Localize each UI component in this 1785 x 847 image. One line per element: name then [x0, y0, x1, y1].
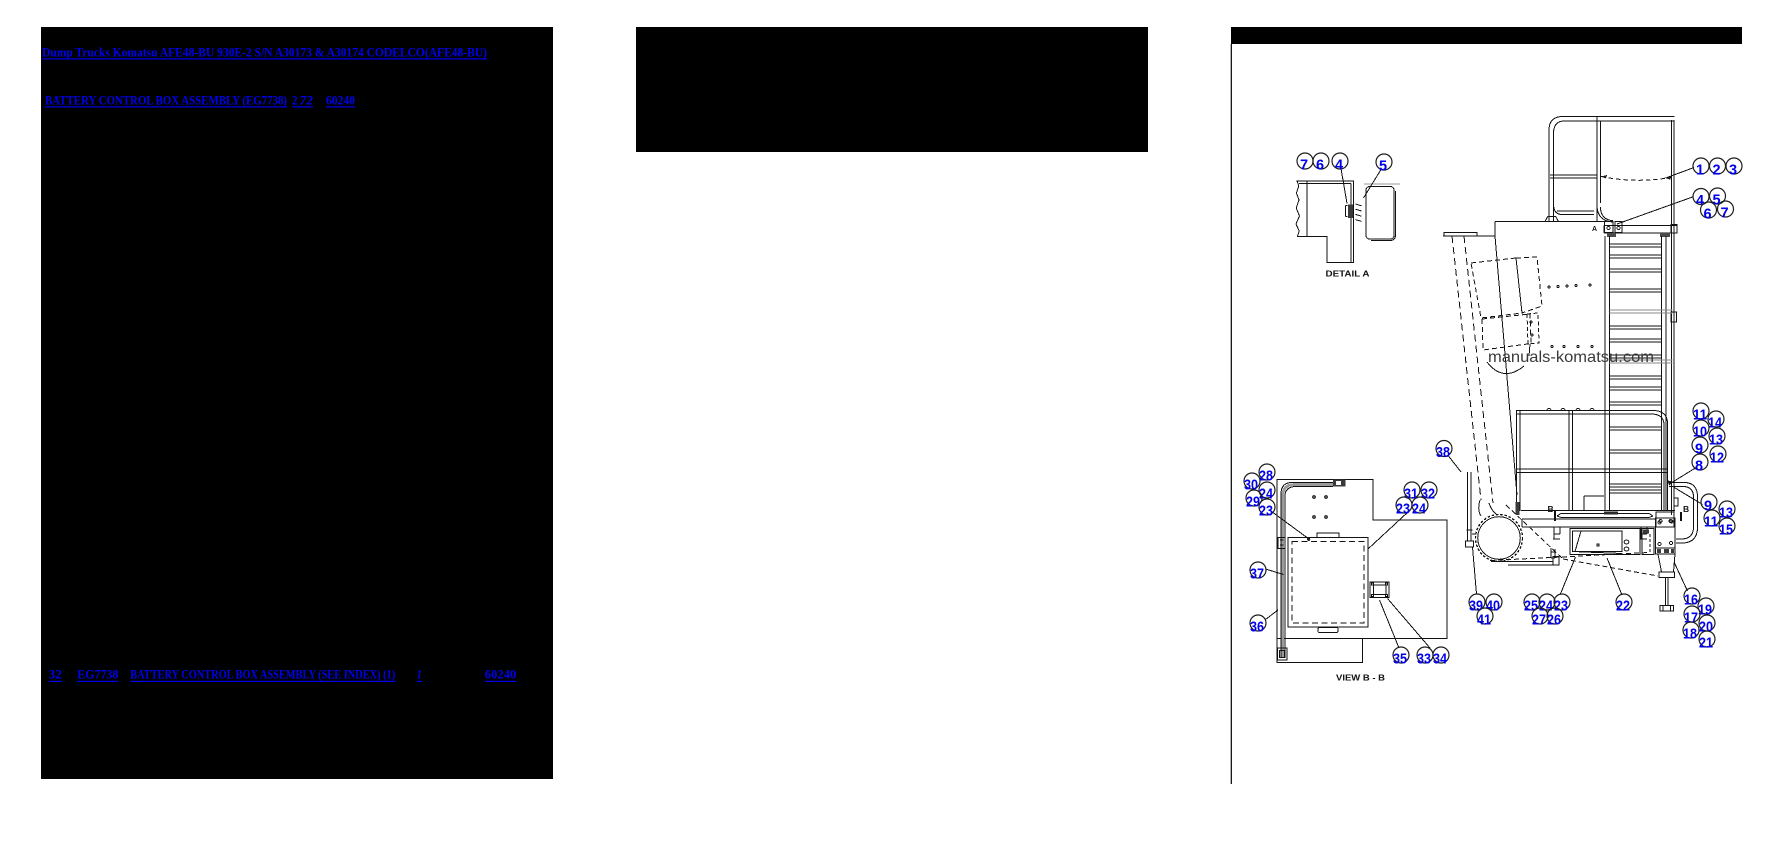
callout 20: [1699, 615, 1715, 636]
platform mid rail: [1516, 469, 1668, 473]
svg-text:15: 15: [1719, 523, 1733, 539]
svg-text:2: 2: [1712, 163, 1720, 179]
box corner clip: [1278, 538, 1285, 549]
top beam: [1604, 226, 1677, 234]
callout 4: [1332, 153, 1348, 174]
pad gray top line: [1364, 183, 1400, 185]
callout 22: [1616, 594, 1632, 615]
callout 9: [1701, 494, 1717, 515]
leader 33 34: [1388, 599, 1431, 649]
leader 22: [1607, 558, 1622, 595]
leader 4: [1617, 197, 1693, 224]
clamp teeth: [1356, 204, 1362, 221]
svg-text:27: 27: [1532, 613, 1546, 629]
callout 38: [1436, 441, 1452, 462]
callout 13: [1709, 428, 1725, 449]
post bottom dark: [1516, 502, 1520, 515]
box diagonal: [1575, 531, 1581, 552]
leader 31 cluster: [1368, 512, 1409, 550]
callout 39: [1469, 594, 1485, 615]
svg-text:26: 26: [1547, 613, 1561, 629]
pad rounded rect: [1366, 187, 1394, 240]
CALLOUTS: [1244, 153, 1742, 668]
battery box top view: [1288, 538, 1368, 628]
platform step detail: [1584, 496, 1604, 511]
leader 37: [1266, 569, 1284, 575]
callout 5: [1710, 188, 1726, 209]
loop tab: [1674, 498, 1678, 506]
pipe inner line: [1281, 483, 1333, 659]
leg flange: [1659, 572, 1675, 578]
callout 26: [1547, 608, 1563, 629]
leg bracket plate: [1656, 518, 1676, 548]
callout 36: [1250, 615, 1266, 636]
callout 40: [1486, 594, 1502, 615]
connector outer: [1370, 582, 1389, 598]
callout 32: [1421, 482, 1437, 503]
callout 23: [1554, 594, 1570, 615]
leader 16: [1674, 562, 1688, 591]
platform left post: [1517, 411, 1521, 512]
svg-text:manuals-komatsu.com: manuals-komatsu.com: [1488, 349, 1654, 366]
cylinder outer (serrated): [1476, 515, 1523, 562]
callout 27: [1532, 608, 1548, 629]
callout 41: [1477, 608, 1493, 629]
fan point arrow: [1668, 481, 1674, 486]
platform top rail: [1516, 411, 1668, 512]
lid dots: [1313, 496, 1316, 499]
callout 21: [1699, 631, 1715, 652]
handrail lower rail curve: [1554, 204, 1595, 215]
callout 17: [1684, 606, 1700, 627]
flange under cylinder: [1491, 549, 1559, 565]
svg-text:B: B: [1548, 504, 1554, 514]
callout 25: [1524, 594, 1540, 615]
stile bottom bracket: [1466, 530, 1477, 547]
callout 2: [1710, 158, 1726, 179]
svg-text:1: 1: [417, 668, 422, 682]
leader 23 group: [1560, 557, 1576, 595]
small handle on right boundary: [1671, 312, 1677, 322]
svg-text:2: 2: [292, 94, 298, 108]
cable arrow right: [1665, 176, 1672, 180]
box right bracket: [1642, 529, 1654, 555]
svg-text:32: 32: [1421, 487, 1435, 503]
deck step: [1443, 222, 1495, 237]
plate inner edge: [1306, 181, 1308, 237]
cylinder inner: [1478, 517, 1521, 560]
callout 6: [1701, 202, 1717, 223]
dashed diagonal under box: [1563, 559, 1658, 576]
dashed under cylinder: [1490, 557, 1572, 561]
truck body edge slant: [1495, 236, 1517, 495]
upper handrail outer tube: [1549, 117, 1675, 222]
leg trapezoid: [1658, 554, 1675, 572]
pipe bottom block: [1278, 648, 1288, 660]
callout 34: [1433, 647, 1449, 668]
leader 38: [1449, 456, 1462, 472]
leader detail 5: [1364, 170, 1382, 199]
callout 24: [1259, 482, 1275, 503]
dashed chute diagonal: [1506, 505, 1563, 559]
leader 1: [1667, 168, 1694, 178]
svg-text:38: 38: [1436, 445, 1450, 461]
hook right below beam: [1640, 527, 1647, 539]
plate double edges: [1299, 184, 1351, 263]
hook left below beam: [1553, 527, 1560, 539]
callout 35: [1393, 647, 1409, 668]
svg-text:DETAIL A: DETAIL A: [1326, 270, 1370, 279]
clamp bracket: [1346, 206, 1348, 217]
callout 29: [1246, 490, 1262, 511]
svg-text:VIEW B - B: VIEW B - B: [1336, 674, 1385, 683]
beam end cap: [1671, 225, 1677, 234]
middle black panel: [636, 27, 1148, 152]
B bracket left: [1554, 511, 1556, 521]
handrail foot: [1545, 216, 1559, 221]
callout 5: [1376, 154, 1392, 175]
platform rail caps: [1547, 409, 1594, 411]
dark bar on deck: [1604, 512, 1618, 515]
handrail mid post: [1597, 117, 1601, 222]
svg-text:60240: 60240: [485, 668, 517, 682]
callout 7: [1718, 201, 1734, 222]
ladder right stile: [1662, 236, 1667, 511]
beam feet: [1607, 233, 1616, 237]
link line 1: [42, 46, 516, 683]
handrail lower rail second line: [1557, 210, 1594, 212]
svg-text:33: 33: [1417, 652, 1431, 668]
DRAWING: [1266, 117, 1703, 663]
B bracket right: [1680, 512, 1682, 521]
callout 33: [1417, 647, 1433, 668]
mid post bottom curve to deck: [1601, 207, 1614, 221]
dashed inner: [1292, 542, 1364, 624]
callout 10: [1693, 420, 1709, 441]
dashed hidden line: [1570, 553, 1649, 557]
pad shadow: [1371, 191, 1396, 241]
svg-text:41: 41: [1477, 613, 1491, 629]
battery box side outer: [1570, 529, 1640, 555]
svg-text:5: 5: [1712, 193, 1720, 209]
beam right block: [1656, 512, 1674, 527]
svg-text:23: 23: [1259, 504, 1273, 520]
stack cone to cylinder: [1479, 500, 1497, 516]
svg-text:32: 32: [49, 668, 63, 682]
cable arrow left: [1601, 175, 1607, 179]
body bolt dots row1: [1548, 284, 1591, 288]
platform mid post: [1569, 411, 1573, 512]
callout 23: [1259, 499, 1275, 520]
gray rungs: [1610, 310, 1673, 363]
latch dashed: [1527, 313, 1539, 344]
dashed sag cable: [1601, 177, 1670, 181]
leader 39: [1473, 547, 1477, 594]
svg-text:37: 37: [1250, 567, 1264, 583]
box top tab: [1317, 533, 1339, 538]
svg-text:34: 34: [1433, 652, 1447, 668]
callout 16: [1684, 588, 1700, 609]
svg-text:18: 18: [1683, 627, 1697, 643]
svg-text:72: 72: [300, 94, 314, 108]
svg-text:BATTERY CONTROL BOX ASSEMBLY (: BATTERY CONTROL BOX ASSEMBLY (SEE INDEX)…: [130, 668, 395, 682]
A clamp plates: [1605, 222, 1623, 233]
tray: [1557, 514, 1653, 518]
callout 13: [1719, 501, 1735, 522]
svg-text:29: 29: [1246, 495, 1260, 511]
callout 1: [1693, 158, 1709, 179]
ladder rungs: [1610, 244, 1662, 493]
svg-text:35: 35: [1393, 652, 1407, 668]
svg-text:8: 8: [1695, 459, 1703, 475]
svg-text:9: 9: [1704, 499, 1712, 515]
svg-text:11: 11: [1704, 515, 1718, 531]
grab pipe loop inner: [1669, 487, 1694, 540]
arc under watermark: [1487, 362, 1524, 374]
callout 24: [1539, 594, 1555, 615]
box bottom tab: [1318, 628, 1338, 633]
chute stile: [1467, 472, 1471, 541]
leader 8: [1671, 467, 1697, 483]
svg-text:60240: 60240: [326, 94, 355, 108]
callout 37: [1250, 562, 1266, 583]
svg-text:5: 5: [1379, 159, 1387, 175]
leg post: [1666, 578, 1669, 606]
exhaust stack: [1452, 236, 1493, 503]
svg-text:12: 12: [1710, 451, 1724, 467]
callout 8: [1692, 454, 1708, 475]
box bolts: [1624, 540, 1629, 544]
svg-text:7: 7: [1720, 206, 1728, 222]
leg block: [1656, 548, 1676, 554]
svg-text:7: 7: [1300, 158, 1308, 174]
clamp bolts: [1607, 226, 1610, 229]
torn plate: [1296, 181, 1354, 263]
callout 11: [1704, 510, 1720, 531]
svg-text:36: 36: [1250, 620, 1264, 636]
right page left border line: [1231, 44, 1232, 784]
leader 9 low: [1674, 487, 1703, 505]
svg-text:24: 24: [1412, 502, 1426, 518]
svg-text:BATTERY CONTROL BOX ASSEMBLY (: BATTERY CONTROL BOX ASSEMBLY (EG7738): [45, 94, 287, 108]
right vertical boundary: [1672, 120, 1675, 515]
svg-text:22: 22: [1616, 599, 1630, 615]
callout 7: [1297, 153, 1313, 174]
callout 19: [1698, 598, 1714, 619]
ladder left stile: [1605, 236, 1610, 511]
svg-text:3: 3: [1729, 163, 1737, 179]
lower beam: [1522, 519, 1656, 527]
cab dashed box 3: [1482, 314, 1531, 350]
clamp dark: [1348, 205, 1353, 219]
top right black bar: [1231, 27, 1742, 44]
leg foot: [1660, 606, 1674, 612]
pipe outer line: [1285, 487, 1333, 659]
callout 11: [1693, 403, 1709, 424]
svg-text:4: 4: [1335, 158, 1343, 174]
svg-text:6: 6: [1316, 158, 1324, 174]
pipe end fitting: [1333, 480, 1346, 487]
deck line lower: [1521, 510, 1675, 512]
svg-text:1: 1: [1696, 163, 1704, 179]
bottom rectangle: [1277, 639, 1363, 663]
callout 3: [1726, 158, 1742, 179]
leader detail 4: [1341, 169, 1347, 204]
connector inner: [1374, 585, 1387, 595]
svg-text:EG7738: EG7738: [77, 668, 118, 682]
outer outline: [1277, 480, 1447, 639]
svg-text:21: 21: [1699, 636, 1713, 652]
svg-text:B: B: [1683, 504, 1689, 514]
mid post outer curve: [1597, 205, 1613, 222]
callout 12: [1710, 446, 1726, 467]
leader 36: [1266, 610, 1279, 620]
callout 23: [1396, 497, 1412, 518]
upper handrail inner tube: [1554, 121, 1675, 221]
exhaust flange: [1444, 233, 1477, 237]
svg-text:23: 23: [1396, 502, 1410, 518]
body bolt dots row2: [1551, 346, 1593, 348]
grab pipe loop outer: [1669, 483, 1698, 544]
svg-text:6: 6: [1703, 207, 1711, 223]
callout 4: [1693, 189, 1709, 210]
callout 18: [1683, 622, 1699, 643]
callout 15: [1719, 518, 1735, 539]
callout 14: [1708, 411, 1724, 432]
handrail mid rail: [1550, 175, 1597, 178]
svg-text:Dump Trucks Komatsu AFE48-BU 9: Dump Trucks Komatsu AFE48-BU 930E-2 S/N …: [42, 46, 487, 60]
lower hook: [1551, 548, 1555, 558]
upper deck edge: [1495, 221, 1604, 223]
cab dashed box 2: [1516, 257, 1542, 313]
svg-text:A: A: [1592, 226, 1597, 233]
cab dashed box 1: [1471, 258, 1522, 318]
callout 28: [1259, 464, 1275, 485]
callout 30: [1244, 473, 1260, 494]
callout 31: [1404, 482, 1420, 503]
callout 24: [1412, 497, 1428, 518]
battery box side inner: [1573, 531, 1623, 554]
callout 9: [1692, 437, 1708, 458]
callout 6: [1313, 153, 1329, 174]
leader 35: [1380, 600, 1400, 648]
left black panel: [41, 27, 553, 779]
pipe gray core: [1283, 485, 1333, 658]
leader 23 left cluster: [1270, 510, 1310, 539]
